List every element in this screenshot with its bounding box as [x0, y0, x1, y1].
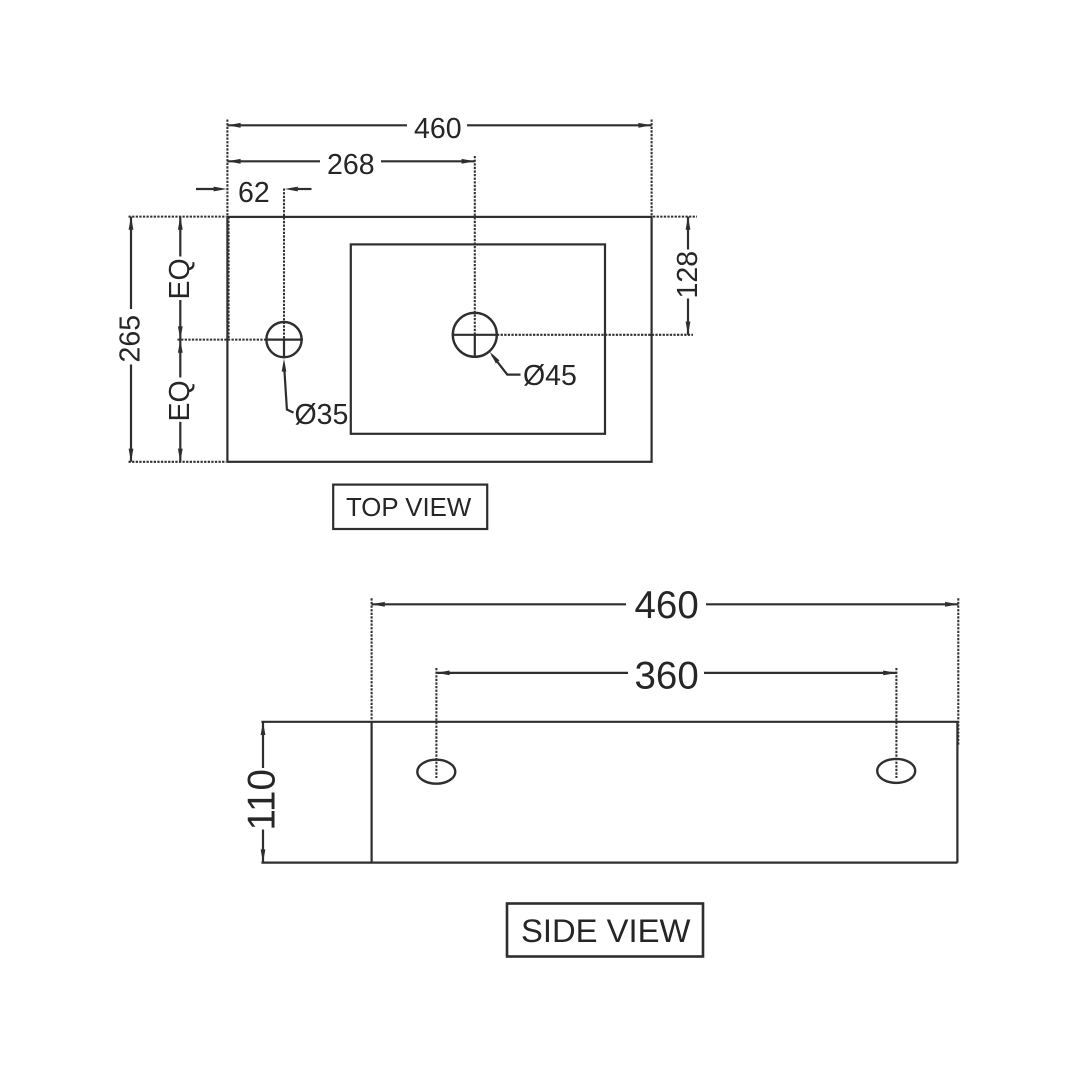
svg-text:Ø45: Ø45 — [523, 360, 577, 392]
dimension EQ upper — [179, 217, 181, 257]
svg-text:460: 460 — [414, 113, 462, 145]
extension line side 460 left (dotted) — [371, 598, 373, 720]
dimension 128 vertical — [687, 217, 689, 250]
extension line side 360 right (dotted) — [895, 668, 897, 778]
large hole crosshair vertical — [474, 334, 476, 357]
extension line 62 to small hole (dotted) — [283, 189, 285, 340]
svg-text:TOP VIEW: TOP VIEW — [346, 494, 472, 522]
small hole crosshair vertical — [283, 339, 285, 358]
extension line 268 to large hole (dotted) — [474, 156, 476, 335]
dimension 110 vertical — [262, 722, 264, 768]
svg-text:268: 268 — [327, 149, 375, 181]
SIDE VIEW rectangle top edge with 110 extension — [261, 721, 957, 723]
svg-text:EQ: EQ — [164, 258, 196, 299]
centerline small hole to EQ dim (dotted) — [178, 339, 267, 341]
svg-text:265: 265 — [115, 315, 147, 363]
extension line left corner vertical (dotted) — [226, 120, 228, 216]
svg-text:128: 128 — [672, 251, 704, 299]
SIDE VIEW rectangle bottom edge with 110 extension — [261, 861, 957, 863]
dimension 360 side — [436, 672, 628, 674]
mounting hole right ellipse — [877, 759, 915, 783]
svg-text:Ø35: Ø35 — [295, 399, 349, 431]
dimension 265 vertical — [130, 217, 132, 309]
faucet hole small circle — [266, 322, 301, 357]
svg-text:EQ: EQ — [164, 380, 196, 421]
svg-text:62: 62 — [238, 177, 270, 209]
dimension EQ lower — [179, 340, 181, 378]
dimension 460 top — [227, 124, 407, 126]
svg-text:110: 110 — [241, 769, 284, 830]
extension line bottom-left horizontal for 265 (dotted) — [129, 461, 227, 463]
SIDE VIEW label box — [507, 904, 703, 957]
extension line side 360 left (dotted) — [435, 668, 437, 778]
dimension 62 — [196, 188, 214, 190]
TOP VIEW label box — [333, 485, 487, 529]
extension line right corner vertical (dotted) — [651, 120, 653, 216]
svg-text:460: 460 — [635, 584, 699, 627]
TOP VIEW main outline rectangle — [227, 217, 651, 462]
leader arrow for O45 — [490, 352, 500, 364]
dimension 268 — [227, 160, 320, 162]
large hole crosshair horizontal — [452, 334, 498, 336]
svg-text:SIDE VIEW: SIDE VIEW — [521, 912, 691, 949]
leader arrow for O35 — [282, 359, 287, 372]
extension line top-left horizontal for 265 (dotted) — [129, 216, 227, 218]
svg-text:360: 360 — [635, 655, 699, 698]
extension line top-right horizontal for 128 (dotted) — [653, 216, 697, 218]
SIDE VIEW rectangle right edge — [956, 722, 958, 863]
SIDE VIEW rectangle left edge — [371, 722, 373, 863]
TOP VIEW inner basin rectangle — [351, 244, 605, 433]
drain hole large circle — [453, 313, 497, 357]
extension line side 460 right (dotted) — [957, 598, 959, 745]
dimension 460 side — [372, 603, 626, 605]
extension line left edge overlay (dotted) — [228, 217, 230, 339]
mounting hole left ellipse — [417, 760, 455, 784]
centerline large hole to 128 dim (dotted) — [497, 334, 693, 336]
small hole crosshair horizontal — [265, 339, 303, 341]
